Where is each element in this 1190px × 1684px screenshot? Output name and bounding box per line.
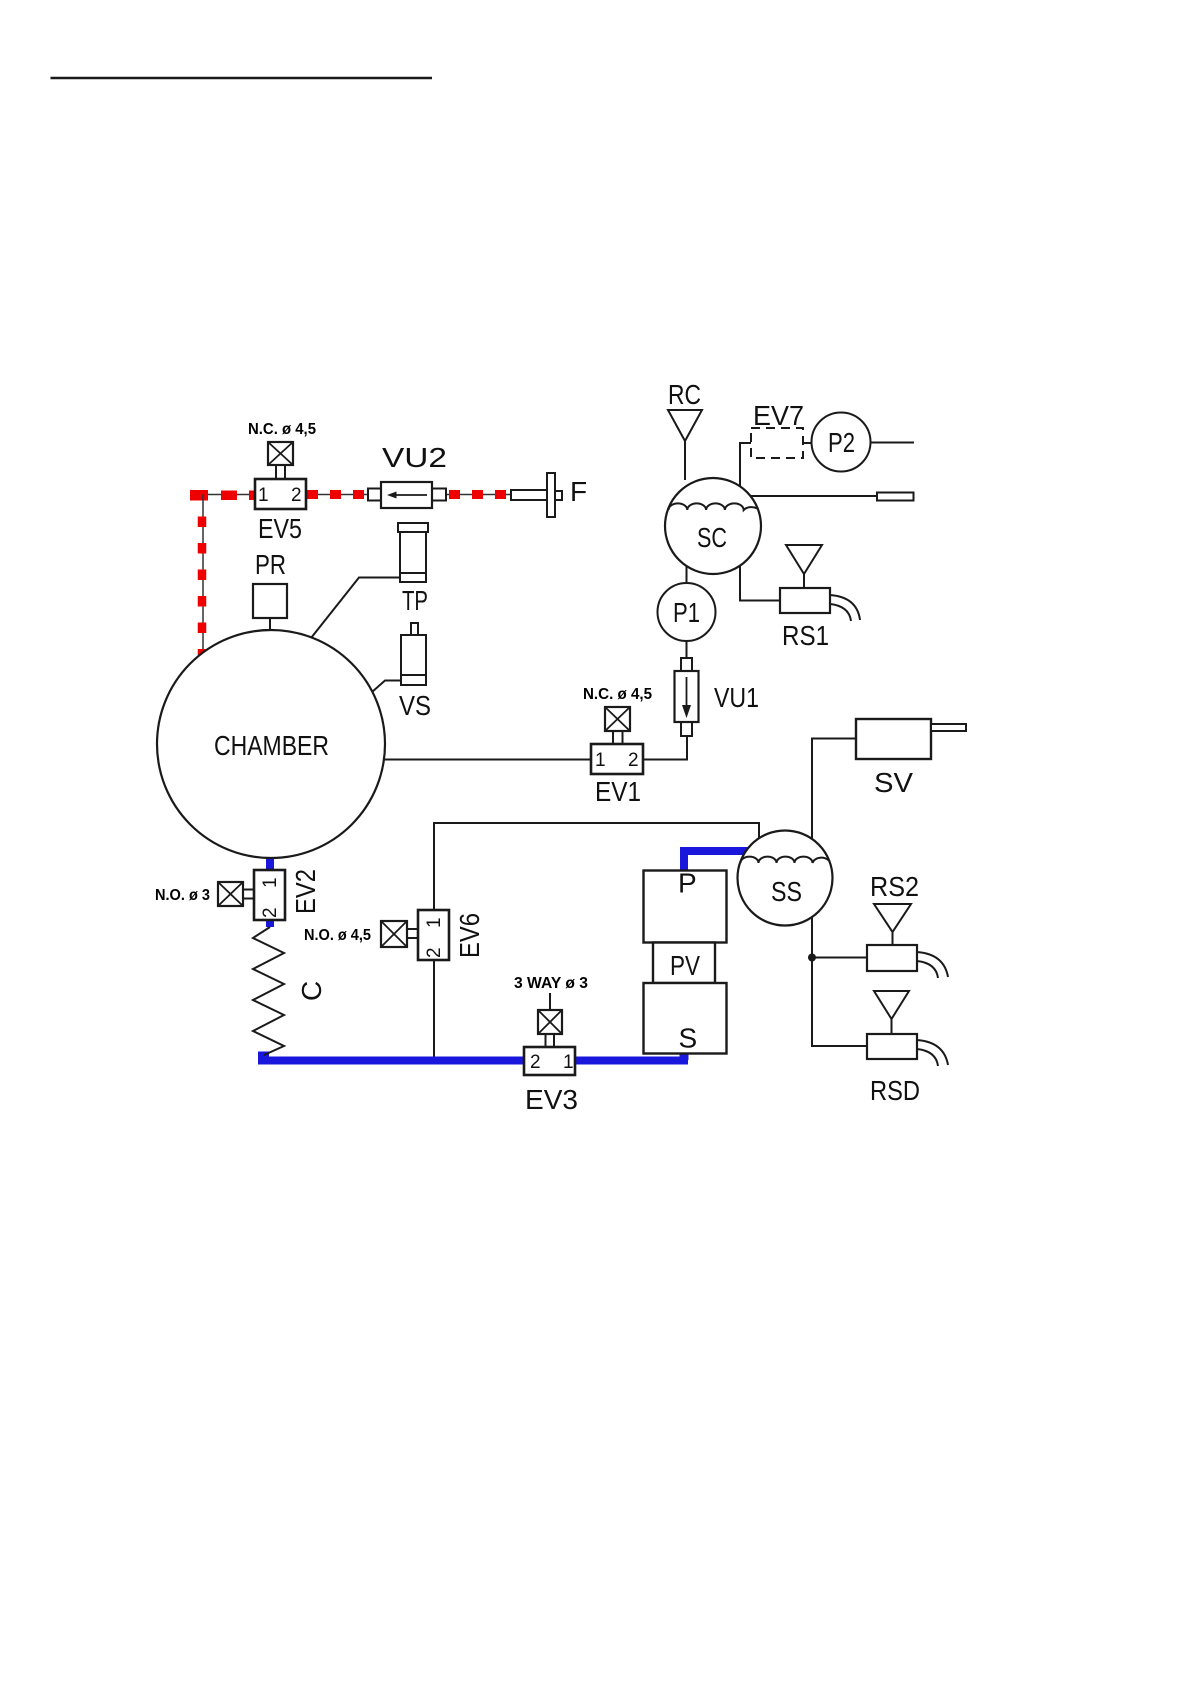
svg-text:P: P xyxy=(678,868,697,899)
wire red dashed horizontal EV5 left xyxy=(190,490,256,501)
wire SC to EV7 xyxy=(740,443,751,487)
blue wire chamber to EV2 xyxy=(266,859,274,871)
svg-text:SV: SV xyxy=(874,767,913,798)
svg-text:RSD: RSD xyxy=(870,1075,920,1106)
wire red dashed vertical to chamber xyxy=(202,495,203,656)
svg-text:RC: RC xyxy=(668,379,701,410)
wire SC to RS1 xyxy=(740,566,780,601)
svg-text:2: 2 xyxy=(424,947,445,958)
valve EV6 body xyxy=(418,910,449,960)
svg-text:F: F xyxy=(570,476,587,507)
wire chamber to VS xyxy=(372,681,401,693)
gauge P2 xyxy=(812,413,871,472)
sensor VS xyxy=(401,623,426,685)
sensor TP xyxy=(398,523,428,582)
valve EV2 solenoid xyxy=(218,882,254,906)
svg-text:EV3: EV3 xyxy=(525,1084,578,1115)
wire P2 right xyxy=(871,442,914,444)
svg-text:P2: P2 xyxy=(828,427,855,458)
vacuum pump SV xyxy=(856,719,966,759)
svg-text:S: S xyxy=(679,1023,698,1054)
chamber xyxy=(157,630,385,858)
wire RC funnel to SC xyxy=(684,441,686,480)
wire red dashed horizontal EV5 to VU2 xyxy=(306,494,368,496)
svg-text:RS2: RS2 xyxy=(870,871,919,902)
valve EV6 solenoid xyxy=(381,921,418,947)
svg-text:VU2: VU2 xyxy=(382,442,447,473)
svg-text:EV7: EV7 xyxy=(753,400,804,431)
junction node xyxy=(808,954,816,962)
svg-text:CHAMBER: CHAMBER xyxy=(214,730,329,761)
pump block S xyxy=(644,983,727,1054)
svg-text:1: 1 xyxy=(424,917,445,928)
wire loop EV6 up right to SS xyxy=(434,823,759,910)
svg-text:1: 1 xyxy=(260,877,281,888)
svg-text:P1: P1 xyxy=(673,597,700,628)
gauge P1 xyxy=(658,583,716,641)
blue wire left end block xyxy=(258,1052,269,1065)
svg-text:PV: PV xyxy=(670,950,700,981)
blue wire bottom horizontal xyxy=(258,1057,688,1065)
svg-text:1: 1 xyxy=(595,750,606,771)
wire junction to RS2 xyxy=(812,957,867,959)
drain RSD xyxy=(867,991,948,1066)
blue wire up to S box xyxy=(680,1053,689,1060)
wire SV to SS xyxy=(812,739,856,841)
svg-text:2: 2 xyxy=(291,485,302,506)
svg-text:N.O. ø 4,5: N.O. ø 4,5 xyxy=(304,927,371,944)
svg-text:TP: TP xyxy=(402,585,428,616)
pump block P xyxy=(644,868,727,943)
svg-text:RS1: RS1 xyxy=(782,620,829,651)
wire red dashed horizontal VU2 to F xyxy=(446,494,511,496)
svg-text:N.O. ø 3: N.O. ø 3 xyxy=(155,887,210,904)
svg-text:VS: VS xyxy=(399,690,431,721)
svg-text:EV5: EV5 xyxy=(258,513,302,544)
probe tip xyxy=(877,493,914,501)
valve EV5 body xyxy=(255,479,306,509)
fitting F xyxy=(511,473,562,517)
wire EV1 port2 to VU1 xyxy=(643,736,687,760)
separator SC xyxy=(665,478,761,574)
pump block PV xyxy=(653,943,715,984)
svg-text:N.C. ø 4,5: N.C. ø 4,5 xyxy=(248,421,316,438)
svg-text:1: 1 xyxy=(258,485,269,506)
valve EV3 body xyxy=(524,1047,575,1075)
svg-text:1: 1 xyxy=(563,1052,574,1073)
svg-text:VU1: VU1 xyxy=(714,682,759,713)
wire chamber to EV1 xyxy=(384,759,591,761)
valve EV1 body xyxy=(591,744,643,774)
blue nub EV2 port2 xyxy=(266,920,274,927)
wire SS down to RSD xyxy=(812,917,867,1046)
top rule xyxy=(51,77,433,80)
wire chamber to TP xyxy=(311,578,400,639)
svg-text:2: 2 xyxy=(530,1052,541,1073)
svg-text:PR: PR xyxy=(255,549,286,580)
svg-text:EV2: EV2 xyxy=(290,869,321,914)
wire VU1 to P1 xyxy=(686,641,688,658)
svg-text:N.C. ø 4,5: N.C. ø 4,5 xyxy=(583,686,652,703)
valve EV1 solenoid xyxy=(605,707,630,744)
valve EV3 solenoid xyxy=(538,1010,562,1047)
wire EV7 to P2 xyxy=(803,442,812,444)
wire EV6 down to blue line xyxy=(433,960,435,1058)
svg-text:3 WAY ø 3: 3 WAY ø 3 xyxy=(514,975,588,992)
wire P1 to SC xyxy=(686,566,688,583)
svg-text:EV1: EV1 xyxy=(595,776,641,807)
drain RS1 xyxy=(780,545,860,621)
svg-text:SS: SS xyxy=(771,876,802,907)
wire PR to chamber xyxy=(269,618,271,632)
blue wire P box to SS xyxy=(684,851,748,870)
valve EV3 stub xyxy=(549,993,551,1010)
svg-text:2: 2 xyxy=(628,750,639,771)
valve EV5 solenoid xyxy=(268,442,293,479)
separator SS xyxy=(738,831,833,926)
svg-text:SC: SC xyxy=(697,522,727,553)
valve EV2 body xyxy=(254,870,285,920)
svg-text:C: C xyxy=(296,981,327,1001)
spring C xyxy=(253,927,284,1055)
wire SC to probe xyxy=(750,495,877,497)
svg-text:EV6: EV6 xyxy=(454,913,485,958)
svg-text:2: 2 xyxy=(260,907,281,918)
